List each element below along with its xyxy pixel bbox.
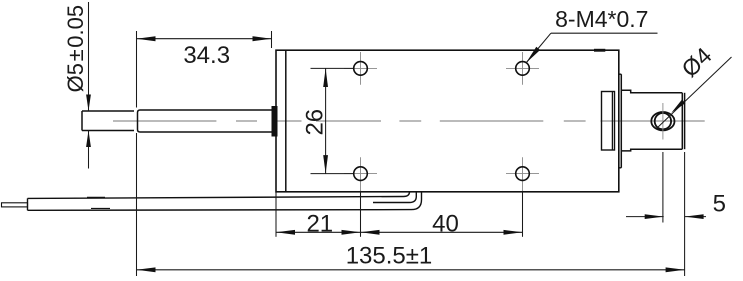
svg-text:Ø5±0.05: Ø5±0.05 xyxy=(63,5,88,92)
svg-text:135.5±1: 135.5±1 xyxy=(346,242,433,269)
svg-text:5: 5 xyxy=(713,191,726,218)
svg-text:34.3: 34.3 xyxy=(183,42,230,69)
svg-text:8-M4*0.7: 8-M4*0.7 xyxy=(555,6,648,32)
svg-text:21: 21 xyxy=(306,210,333,237)
svg-text:26: 26 xyxy=(301,109,328,136)
svg-text:40: 40 xyxy=(432,210,459,237)
